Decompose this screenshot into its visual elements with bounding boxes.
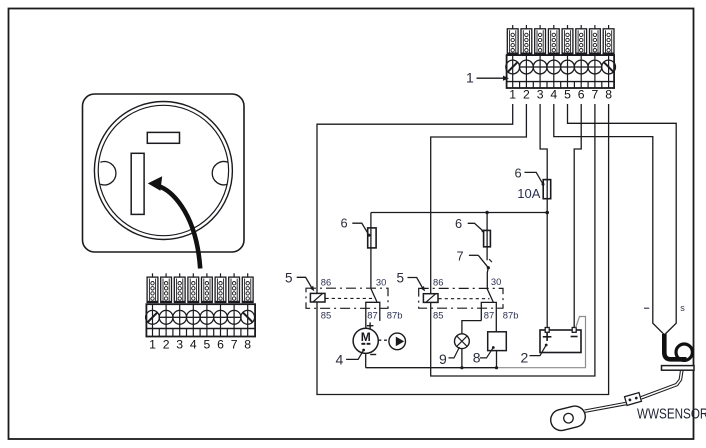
svg-text:30: 30 bbox=[491, 276, 501, 287]
contact bracket 87/87b bbox=[366, 302, 380, 328]
svg-text:4: 4 bbox=[336, 352, 344, 368]
svg-text:87b: 87b bbox=[387, 309, 403, 320]
control unit outer circle bbox=[94, 102, 232, 240]
wire terminal3 to fuse 10A bbox=[540, 104, 547, 213]
svg-text:6: 6 bbox=[217, 338, 224, 352]
vertical slot bbox=[131, 153, 144, 214]
svg-text:7: 7 bbox=[592, 88, 599, 102]
pin labels bbox=[433, 276, 518, 320]
svg-text:4: 4 bbox=[550, 88, 557, 102]
wire right relay coil 85 to terminal7 bbox=[431, 104, 595, 376]
plus mark bbox=[543, 336, 552, 338]
wire rail to left fuse and relay 30 bbox=[370, 213, 372, 289]
svg-text:30: 30 bbox=[376, 276, 386, 287]
svg-text:6: 6 bbox=[455, 216, 462, 231]
svg-text:87: 87 bbox=[484, 309, 494, 320]
svg-text:6: 6 bbox=[341, 216, 348, 231]
terminal block TB2 (lower left) bbox=[146, 273, 256, 351]
wire terminal5 to sensor s bbox=[568, 104, 677, 335]
mechanical link bbox=[439, 298, 490, 300]
wire switch to right relay 30 bbox=[487, 268, 488, 289]
wire terminal2 to right relay coil 86 bbox=[431, 104, 527, 294]
wire rail to right fuse bbox=[486, 213, 488, 261]
svg-text:5: 5 bbox=[285, 271, 293, 286]
left notch bbox=[100, 162, 116, 185]
svg-text:87b: 87b bbox=[503, 309, 519, 320]
svg-text:2: 2 bbox=[163, 338, 170, 352]
svg-text:8: 8 bbox=[473, 350, 481, 366]
node dot bbox=[545, 211, 549, 215]
switch 7 blade bbox=[478, 255, 488, 267]
svg-text:6: 6 bbox=[578, 88, 585, 102]
block body bbox=[507, 55, 614, 88]
strip dividers bbox=[159, 329, 241, 337]
screws bbox=[146, 310, 255, 324]
strip dividers bbox=[520, 82, 602, 88]
control unit: rounded square housing bbox=[83, 94, 245, 252]
motor M (4) bbox=[336, 322, 379, 367]
svg-text:WWSENSOR: WWSENSOR bbox=[637, 405, 706, 422]
wire 87 to lamp bbox=[462, 321, 481, 334]
svg-text:8: 8 bbox=[605, 88, 612, 102]
svg-text:86: 86 bbox=[321, 276, 331, 287]
sensor ring bbox=[676, 344, 692, 360]
svg-text:1: 1 bbox=[149, 338, 156, 352]
terminal block TB1 (top) bbox=[506, 25, 616, 102]
svg-text:s: s bbox=[680, 303, 685, 313]
top slot bbox=[147, 132, 179, 143]
coil bbox=[423, 294, 438, 303]
sensor cable (double line) bbox=[585, 370, 684, 412]
wire box to ground rail bbox=[496, 351, 498, 368]
wire node to battery plus bbox=[546, 213, 548, 328]
svg-text:10A: 10A bbox=[517, 186, 540, 201]
terminal numbers bbox=[509, 88, 612, 102]
box 8 (controller) bbox=[473, 332, 507, 368]
mechanical link bbox=[326, 297, 374, 299]
lamp 9 bbox=[439, 334, 469, 368]
contact blade 30 bbox=[487, 289, 493, 302]
plus mark bbox=[367, 325, 374, 327]
pump symbol bbox=[379, 333, 406, 350]
screws bbox=[506, 60, 616, 74]
fuse 6 (left) bbox=[368, 228, 376, 248]
svg-text:87: 87 bbox=[367, 309, 377, 320]
svg-text:3: 3 bbox=[537, 88, 544, 102]
svg-text:5: 5 bbox=[204, 338, 211, 352]
svg-text:2: 2 bbox=[523, 88, 530, 102]
contact blade 30 bbox=[371, 289, 377, 302]
relay K2 (right) bbox=[397, 271, 519, 334]
minus label bbox=[644, 307, 649, 309]
ground rail (gray part) to battery minus bbox=[497, 317, 586, 368]
terminal numbers bbox=[149, 338, 251, 352]
curved arrow into vertical slot bbox=[158, 186, 201, 269]
strip line bbox=[507, 81, 614, 83]
svg-text:M: M bbox=[361, 330, 371, 344]
wire left relay coil 85 to outer bottom bbox=[317, 104, 609, 395]
svg-text:7: 7 bbox=[231, 338, 238, 352]
svg-text:5: 5 bbox=[397, 271, 405, 286]
pin labels bbox=[321, 276, 403, 320]
wire terminal1 to left relay coil 86 bbox=[317, 104, 513, 293]
svg-text:2: 2 bbox=[521, 350, 529, 366]
svg-text:8: 8 bbox=[244, 338, 251, 352]
svg-text:86: 86 bbox=[433, 276, 443, 287]
svg-text:6: 6 bbox=[515, 165, 522, 180]
svg-text:4: 4 bbox=[190, 338, 197, 352]
svg-text:3: 3 bbox=[176, 338, 183, 352]
supply rail to relays bbox=[371, 212, 547, 214]
contact bracket 87/87b bbox=[481, 302, 496, 331]
coil bbox=[310, 293, 325, 302]
right notch bbox=[212, 161, 228, 184]
thick sensor wire bbox=[664, 334, 686, 359]
dashed housing bbox=[419, 288, 503, 308]
svg-text:9: 9 bbox=[439, 351, 447, 367]
strip line bbox=[146, 328, 255, 330]
battery 2 bbox=[521, 328, 582, 366]
terminal wires through block bbox=[153, 304, 248, 336]
wire terminal4 to sensor minus bbox=[554, 104, 664, 335]
minus mark bbox=[370, 354, 376, 356]
block body bbox=[146, 304, 255, 336]
fuse 6/10A bbox=[543, 180, 551, 199]
svg-text:85: 85 bbox=[433, 309, 443, 320]
wire motor to ground rail bbox=[365, 353, 367, 367]
wire terminal6 to battery minus bbox=[574, 104, 581, 327]
cable connector bbox=[625, 393, 642, 406]
svg-text:85: 85 bbox=[321, 309, 331, 320]
control unit inner circle bbox=[98, 105, 228, 235]
svg-text:1: 1 bbox=[509, 88, 516, 102]
wire lamp to ground rail bbox=[461, 349, 463, 368]
junction dots on ground rail bbox=[460, 366, 463, 369]
svg-text:1: 1 bbox=[466, 69, 474, 85]
sensor body oval bbox=[548, 404, 587, 433]
ground rail (black part) bbox=[366, 367, 497, 369]
terminal wires through block bbox=[513, 55, 609, 88]
fuse 6 (right) bbox=[484, 230, 491, 246]
dashed housing bbox=[306, 288, 388, 308]
relay K1 (left) bbox=[285, 271, 402, 329]
svg-text:5: 5 bbox=[564, 88, 571, 102]
svg-text:7: 7 bbox=[457, 249, 464, 264]
mounting bar bbox=[662, 366, 695, 371]
plugs 1-8 bbox=[147, 273, 158, 302]
plugs 1-8 bbox=[507, 25, 518, 54]
minus mark bbox=[571, 336, 578, 338]
